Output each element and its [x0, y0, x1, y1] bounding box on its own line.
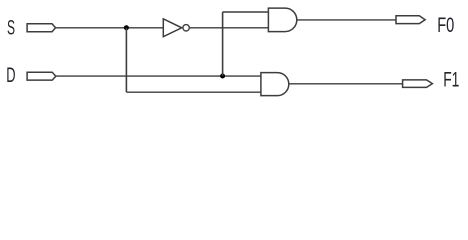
wire D branch vertical up [222, 12, 224, 76]
wire AND2 output to F1 tag [289, 83, 403, 85]
output tag F1 [403, 80, 433, 88]
input tag S [27, 24, 55, 32]
svg-text:F1: F1 [443, 68, 459, 92]
inverter U1 (NOT gate) [163, 19, 189, 37]
output tag F0 [396, 16, 425, 24]
junction node on D wire [220, 74, 225, 79]
svg-text:S: S [7, 17, 15, 40]
svg-text:F0: F0 [437, 13, 454, 37]
svg-text:D: D [6, 63, 15, 87]
wire D tag to AND2 upper input [56, 75, 261, 77]
AND gate U2 (top, output F0) [268, 8, 296, 32]
wire S tag to inverter input [56, 27, 164, 29]
input tag D [27, 72, 56, 80]
AND gate U3 (bottom, output F1) [261, 73, 289, 96]
wire D branch horizontal to AND1 upper input [223, 11, 269, 13]
wire inverter output to AND1 lower input [189, 27, 268, 29]
wire S branch vertical down [125, 28, 127, 92]
junction node on S wire [124, 25, 129, 30]
wire AND1 output to F0 tag [297, 19, 396, 21]
wire S branch horizontal to AND2 lower input [126, 91, 261, 93]
